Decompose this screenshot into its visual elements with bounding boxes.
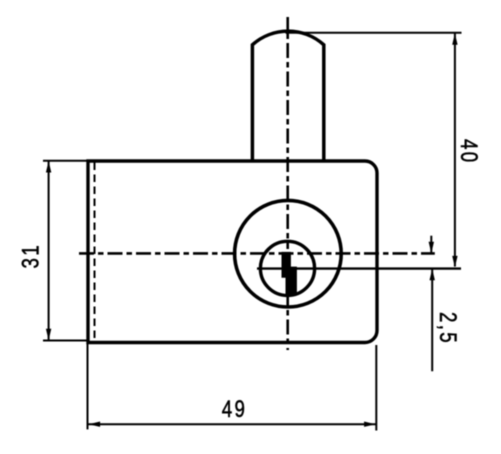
dimension line 31: [48, 162, 50, 341]
arrow 31 bottom: [46, 329, 51, 341]
cylinder plug inner circle: [260, 241, 314, 295]
svg-text:31: 31: [17, 243, 44, 269]
cylinder outer circle: [235, 200, 342, 307]
arrow 40 top: [452, 33, 457, 45]
arrow 40 bottom: [452, 256, 457, 268]
extension line top-left for 31: [43, 160, 88, 162]
svg-text:40: 40: [455, 139, 482, 165]
extension line bottom-left for 31: [43, 340, 88, 342]
arrow 31 top: [46, 161, 51, 173]
extension line bottom-right for 49: [375, 345, 377, 431]
dimension line 2,5 upper leader: [430, 236, 432, 253]
svg-text:49: 49: [222, 396, 248, 423]
svg-text:2,5: 2,5: [434, 312, 461, 345]
vertical centerline upper part: [286, 17, 289, 240]
keyhole: [282, 252, 297, 294]
dimension line 2,5 lower leader: [431, 269, 433, 371]
vertical centerline lower part: [286, 240, 289, 350]
horizontal centerline: [75, 252, 435, 255]
arrow 49 right: [364, 422, 376, 427]
extension line bottom-left for 49: [87, 343, 89, 429]
lock body outline: [88, 161, 377, 343]
arrow 49 left: [89, 422, 101, 427]
extension line top for 40: [286, 32, 462, 34]
stem (cylinder housing): [252, 31, 323, 161]
dimension line 40: [454, 34, 456, 267]
arrow 2,5 lower: [430, 269, 435, 281]
arrow 2,5 upper: [429, 242, 434, 254]
dimension line 49: [88, 423, 376, 425]
keyway reference line: [257, 267, 461, 269]
hidden edge dashed line: [94, 163, 96, 342]
